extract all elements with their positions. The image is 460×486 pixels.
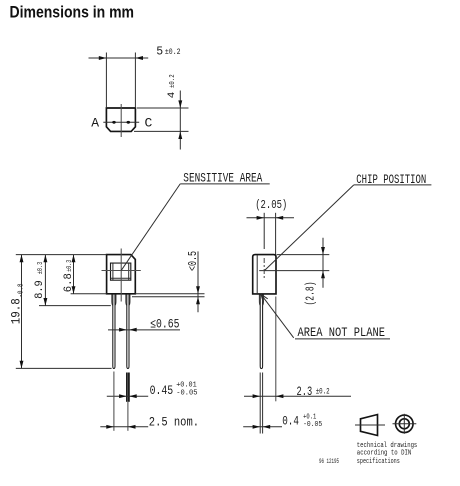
side lead edge extensions below: [259, 373, 261, 434]
body bottom extension right (upper line of <0.5): [135, 293, 204, 295]
extension line left (body side up): [105, 53, 107, 109]
lead C centerline below: [127, 402, 129, 431]
svg-text:0.45: 0.45: [150, 384, 174, 398]
svg-text:specifications: specifications: [357, 458, 400, 466]
front horizontal centerline: [102, 270, 141, 272]
extension line right (body side up): [134, 53, 136, 109]
chip cross horizontal / chip level line: [259, 270, 329, 272]
side lead collar: [259, 295, 263, 306]
lead A centerline below: [113, 372, 115, 431]
extension line 8.9 (collar bottom): [39, 305, 111, 307]
dimension line <=0.65: [108, 329, 180, 331]
svg-text:4±0.2: 4±0.2: [167, 74, 178, 98]
lower ledge line (<0.5): [132, 296, 205, 298]
svg-text:<0.5: <0.5: [187, 251, 200, 271]
svg-text:96 12195: 96 12195: [319, 458, 339, 465]
lead tip extension line (19.8): [16, 367, 112, 369]
pin crosshair line: [103, 121, 139, 123]
svg-text:+0.01: +0.01: [176, 381, 197, 389]
lead C edge extensions (0.45): [126, 373, 128, 402]
(2.05) extension line left (chip): [263, 213, 265, 249]
body top extension left: [16, 254, 107, 256]
extension line top right (4 dim): [137, 107, 189, 109]
dimension line (2.05): [247, 217, 295, 219]
value (2.8) (rotated): [305, 282, 318, 306]
lead A collar: [112, 295, 116, 306]
dimension line 6.8 +-0.3: [73, 255, 75, 294]
CHIP POSITION underline: [354, 184, 432, 186]
projection circles: [396, 415, 414, 433]
value 8.9 +-0.3 (rotated): [34, 261, 46, 298]
dimension line 2.5 nom: [100, 426, 148, 428]
circle crosshair: [393, 423, 417, 425]
svg-text:2.3: 2.3: [297, 385, 313, 399]
svg-text:C: C: [145, 115, 153, 130]
svg-text:(2.8): (2.8): [305, 282, 318, 306]
AREA NOT PLANE leader: [261, 294, 294, 338]
AREA NOT PLANE leader arrowhead: [261, 294, 268, 302]
SENSITIVE AREA leader: [121, 184, 180, 270]
dimension line 2.3 +-0.2: [244, 395, 351, 397]
front vertical centerline: [120, 249, 122, 302]
svg-text:according to DIN: according to DIN: [357, 449, 412, 457]
svg-text:0.4: 0.4: [282, 415, 299, 429]
svg-text:-0.05: -0.05: [176, 390, 198, 398]
package body top view outline (chamfered bottom corners): [106, 108, 135, 131]
svg-text:-0.05: -0.05: [303, 421, 323, 429]
lead C collar: [126, 295, 130, 306]
body back face inner line: [256, 255, 258, 294]
value 4 +-0.2 (rotated): [167, 74, 178, 98]
extension line bottom right (4 dim): [134, 130, 189, 132]
value 19.8 -0.8 (rotated): [8, 284, 25, 325]
SENSITIVE AREA underline: [180, 183, 270, 185]
lead A (left): [113, 294, 115, 369]
dimension line (2.8): [322, 238, 324, 288]
dimension line 0.45: [107, 395, 148, 397]
body top extension right (2.8): [277, 254, 330, 256]
svg-text:±0.2: ±0.2: [165, 48, 181, 57]
svg-text:≤0.65: ≤0.65: [150, 318, 179, 332]
pin C dot: [127, 121, 131, 124]
value 6.8 +-0.3 (rotated): [63, 259, 75, 292]
sensitive area inner left line: [112, 263, 114, 280]
first angle projection cone: [361, 415, 378, 436]
cone centerline: [355, 424, 385, 426]
top view vertical centerline: [120, 104, 122, 137]
lead C (right): [127, 294, 129, 369]
value <0.5 (rotated): [187, 251, 200, 271]
dimension line 4 +-0.2: [179, 91, 181, 150]
svg-text:5: 5: [156, 46, 163, 59]
svg-text:AREA NOT PLANE: AREA NOT PLANE: [298, 326, 386, 340]
dimension line 8.9 +-0.3: [44, 255, 46, 306]
AREA NOT PLANE underline: [295, 338, 390, 340]
svg-text:±0.2: ±0.2: [316, 387, 330, 396]
sensitive area inner right line: [128, 263, 130, 280]
dimension line 19.8 -0.8: [21, 255, 23, 369]
(2.05) extension line right (body face up): [275, 213, 277, 255]
package body front view outline: [107, 255, 136, 294]
package body side view outline: [253, 255, 276, 294]
chip vertical centerline (dashed): [263, 258, 265, 280]
svg-text:Dimensions in mm: Dimensions in mm: [10, 2, 135, 21]
svg-text:(2.05): (2.05): [255, 198, 287, 212]
svg-text:2.5 nom.: 2.5 nom.: [149, 415, 199, 429]
svg-text:A: A: [91, 115, 99, 130]
CHIP POSITION leader: [264, 185, 353, 271]
dimension line <0.5: [197, 251, 199, 312]
body front face extension below: [275, 297, 277, 402]
body bottom extension left (6.8): [71, 293, 107, 295]
dimension line 0.4: [243, 426, 282, 428]
side lead: [260, 294, 262, 369]
sensitive area inner bottom line: [111, 277, 131, 279]
dimension line 5 +-0.2: [89, 57, 149, 59]
sensitive area square: [111, 263, 131, 280]
pin A dot: [112, 121, 116, 124]
